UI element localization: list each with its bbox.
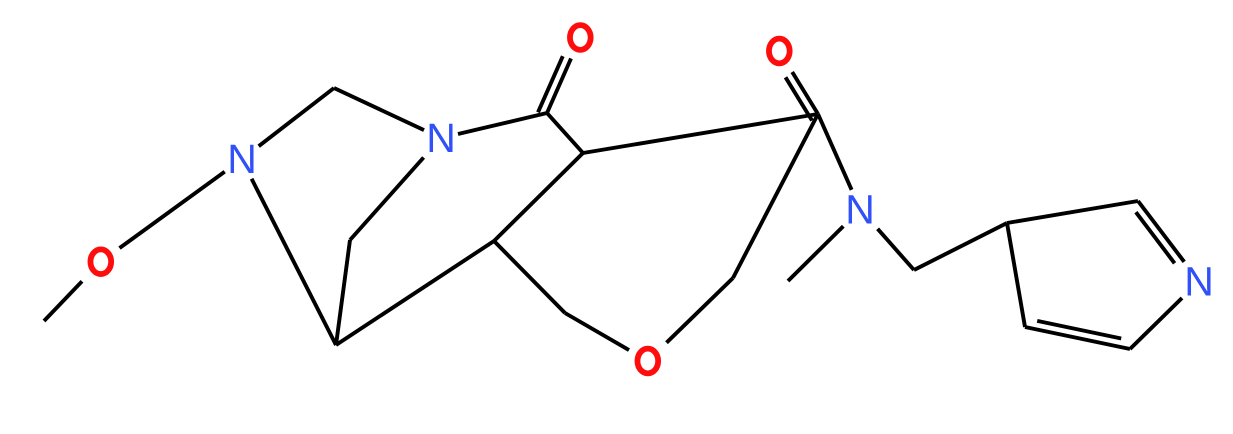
wire: pyridine ring edge: [1007, 201, 1138, 223]
wire: N2-CH2 ring bond: [350, 158, 424, 241]
wire: N1-CH ring bond: [252, 179, 336, 345]
wire: C4-C(=O) long bond: [583, 114, 818, 153]
node O2 (carbonyl oxygen): [769, 39, 790, 64]
svg-text:N: N: [227, 136, 257, 182]
wire: C2=O2 double bond stroke: [792, 72, 818, 114]
wire: pyridine N-C edge: [1130, 298, 1182, 349]
wire: pyridine C=C inner stroke: [1037, 321, 1121, 339]
svg-text:N: N: [426, 115, 456, 161]
wire: CH2-pyridine bond: [914, 223, 1007, 270]
wire: oxane C6-C5/acyl bond: [733, 114, 818, 278]
wire: C4-C(=O) bond: [547, 113, 583, 153]
wire: N3-CH2 bond: [878, 229, 914, 270]
wire: CH2-CH ring bond: [336, 240, 350, 345]
wire: pyridine C=N inner stroke: [1136, 212, 1175, 263]
wire: C(=O)-N2 amide bond: [458, 113, 547, 134]
wire: oxane C3-C2 bond: [494, 241, 565, 313]
wire: C(=O)-N3 amide bond: [818, 114, 852, 190]
wire: N3-CH3 bond: [788, 226, 843, 281]
wire: pyridine C=N edge: [1138, 201, 1184, 262]
node O1 (carbonyl oxygen): [570, 25, 591, 50]
svg-text:N: N: [1184, 259, 1214, 305]
wire: oxane C3-C4 bond: [494, 153, 583, 241]
node O (oxane ring oxygen): [637, 349, 658, 374]
wire: C1=O1 inner stroke: [538, 56, 563, 112]
wire: O-CH3 bond: [44, 281, 82, 321]
wire: oxane O-C6 bond: [667, 278, 734, 343]
wire: oxane C2-O bond: [565, 313, 629, 350]
wire: N1-O methoxy bond: [120, 172, 225, 248]
wire: CH2 bridge-N2 bond: [334, 88, 424, 130]
wire: N1-CH2 bridge bond: [259, 88, 334, 146]
wire: pyridine ring edge: [1007, 223, 1025, 327]
wire: C2=O2 inner stroke: [786, 77, 813, 120]
wire: CH-CH link bond: [336, 241, 494, 345]
node O (methoxy oxygen): [90, 249, 111, 274]
wire: pyridine C=C edge: [1025, 327, 1130, 349]
wire: C1=O1 double bond stroke: [547, 59, 571, 114]
svg-text:N: N: [845, 187, 875, 233]
